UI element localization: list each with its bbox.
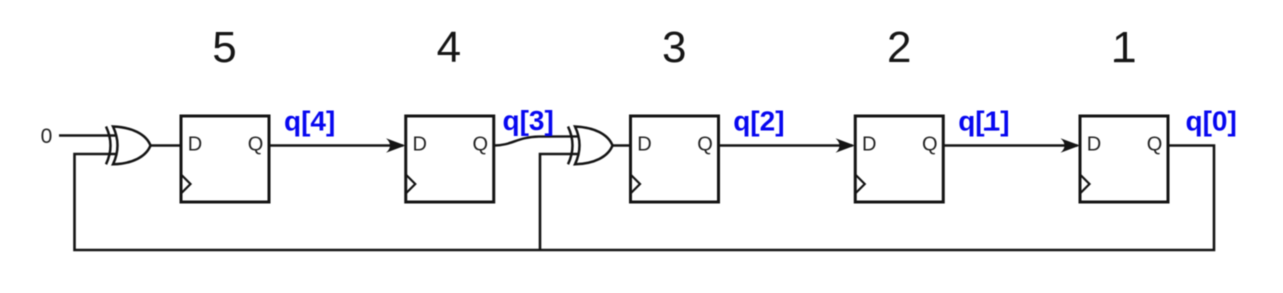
svg-text:D: D <box>1087 134 1101 156</box>
wire: XOR1 output to DFF5 D <box>151 144 182 146</box>
flip-flop DFF1 <box>1080 116 1168 202</box>
flip-flop DFF2 <box>855 116 943 202</box>
xor gate X1 <box>106 127 151 165</box>
svg-text:q[4]: q[4] <box>284 106 335 137</box>
svg-text:4: 4 <box>437 23 461 72</box>
svg-text:D: D <box>188 134 202 156</box>
wire: XOR2 output to DFF3 D <box>613 144 631 146</box>
flip-flop DFF5 <box>181 116 269 202</box>
svg-text:2: 2 <box>887 23 911 72</box>
feedback tap wire: bottom net up to XOR2 bottom input <box>540 154 583 250</box>
svg-text:1: 1 <box>1112 23 1136 72</box>
svg-text:D: D <box>637 134 651 156</box>
clock triangle <box>406 175 416 194</box>
clock triangle <box>1080 175 1090 194</box>
svg-text:D: D <box>862 134 876 156</box>
flip-flop DFF3 <box>631 116 719 202</box>
wire: DFF4 Q to XOR2 top input <box>494 136 581 145</box>
svg-text:q[1]: q[1] <box>958 106 1009 137</box>
clock triangle <box>181 175 191 194</box>
svg-text:Q: Q <box>472 134 488 156</box>
svg-text:q[0]: q[0] <box>1186 106 1237 137</box>
xor gate X2 <box>568 127 613 165</box>
wire: DFF3 Q to DFF2 D with arrowhead <box>719 138 856 153</box>
svg-text:Q: Q <box>922 134 938 156</box>
svg-text:D: D <box>413 134 427 156</box>
svg-text:q[3]: q[3] <box>503 105 554 136</box>
svg-text:q[2]: q[2] <box>733 106 784 137</box>
clock triangle <box>855 175 865 194</box>
clock triangle <box>631 175 641 194</box>
svg-text:Q: Q <box>697 134 713 156</box>
svg-text:3: 3 <box>662 23 686 72</box>
wire: 0 to XOR1 top input <box>59 134 119 136</box>
svg-text:0: 0 <box>41 125 53 148</box>
wire: DFF2 Q to DFF1 D with arrowhead <box>943 138 1080 153</box>
svg-text:Q: Q <box>1147 134 1163 156</box>
wire: DFF5 Q to DFF4 D with arrowhead <box>269 138 406 153</box>
flip-flop DFF4 <box>406 116 494 202</box>
feedback wire: q[0] net from DFF1 Q around bottom to XOR1 bottom input <box>75 146 1215 251</box>
svg-text:Q: Q <box>248 134 264 156</box>
svg-text:5: 5 <box>212 23 236 72</box>
